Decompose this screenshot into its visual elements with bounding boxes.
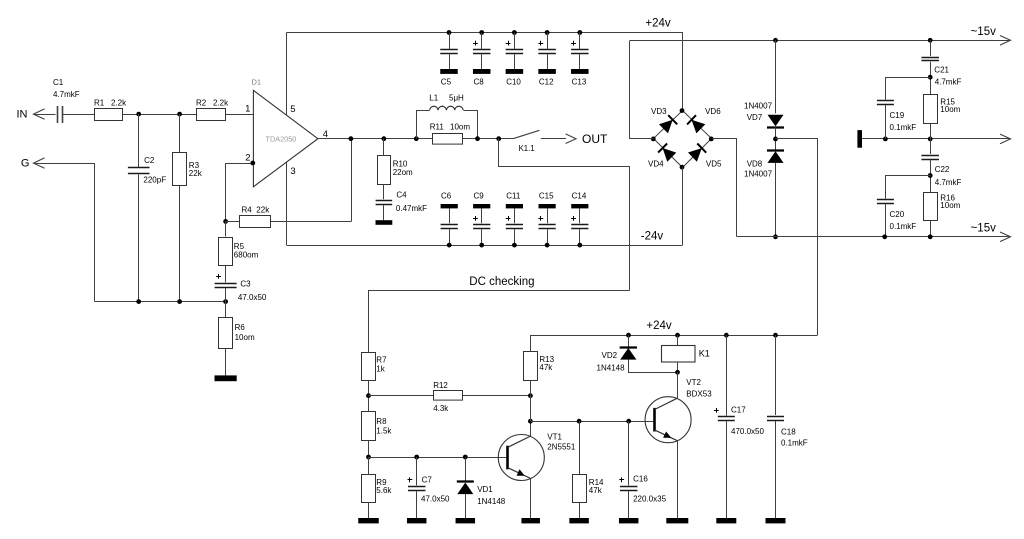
wire	[416, 457, 418, 485]
wire	[179, 186, 181, 302]
terminal IN	[17, 109, 45, 121]
svg-text:VD8: VD8	[747, 160, 763, 169]
ground	[215, 375, 237, 381]
svg-text:C14: C14	[572, 192, 587, 201]
node	[177, 299, 182, 304]
node	[928, 38, 933, 43]
node	[136, 112, 141, 117]
svg-text:5: 5	[290, 104, 295, 115]
label ~15v	[971, 222, 997, 234]
diode VD1	[457, 482, 506, 506]
svg-text:0.1mkF: 0.1mkF	[890, 222, 917, 231]
svg-text:BDX53: BDX53	[686, 390, 712, 399]
svg-text:5μH: 5μH	[449, 94, 464, 103]
capacitor C10	[506, 30, 524, 87]
node	[475, 136, 480, 141]
resistor R2	[196, 99, 229, 121]
resistor R16	[924, 193, 961, 221]
svg-text:R11: R11	[430, 122, 445, 131]
svg-text:10om: 10om	[450, 122, 470, 131]
resistor R1	[94, 99, 127, 121]
transistor VT1	[498, 421, 576, 518]
svg-text:C8: C8	[474, 78, 485, 87]
svg-text:2N5551: 2N5551	[547, 443, 576, 452]
node	[928, 173, 933, 178]
svg-text:1.5k: 1.5k	[376, 426, 392, 435]
svg-text:1N4148: 1N4148	[477, 497, 506, 506]
svg-text:5.6k: 5.6k	[376, 486, 392, 495]
node	[883, 137, 888, 142]
svg-text:4.3k: 4.3k	[433, 404, 449, 413]
wire	[34, 164, 95, 302]
wire +24v rail	[287, 33, 683, 111]
svg-text:C9: C9	[474, 192, 485, 201]
wire	[885, 204, 887, 236]
ground	[358, 518, 379, 523]
capacitor C20	[877, 200, 916, 231]
wire	[123, 114, 196, 116]
node	[577, 419, 582, 424]
wire	[775, 40, 777, 113]
capacitor C13	[571, 30, 589, 87]
svg-text:C17: C17	[731, 405, 746, 414]
resistor R12	[369, 381, 531, 413]
wire -24v rail	[287, 245, 683, 247]
node	[928, 137, 933, 142]
svg-text:C2: C2	[144, 156, 155, 165]
svg-text:IN: IN	[17, 109, 28, 121]
node	[414, 455, 419, 460]
resistor R13	[524, 352, 555, 381]
wire +24v bottom rail	[530, 335, 817, 337]
node	[177, 112, 182, 117]
svg-text:22k: 22k	[189, 169, 203, 178]
node	[680, 108, 685, 113]
resistor R9	[362, 475, 393, 503]
wire ~15v top	[630, 36, 1011, 46]
node	[223, 299, 228, 304]
wire	[775, 421, 777, 518]
op-amp D1 TDA2050	[252, 77, 318, 187]
svg-text:OUT: OUT	[582, 132, 608, 146]
svg-text:VD1: VD1	[477, 485, 493, 494]
node	[528, 419, 533, 424]
wire	[775, 335, 777, 415]
ground	[619, 518, 639, 523]
svg-text:C4: C4	[396, 190, 407, 199]
wire	[383, 139, 385, 155]
svg-text:C13: C13	[572, 78, 587, 87]
svg-text:0.47mkF: 0.47mkF	[396, 204, 427, 213]
svg-text:4.7mkF: 4.7mkF	[935, 78, 962, 87]
wire	[530, 335, 532, 352]
svg-text:47.0x50: 47.0x50	[421, 494, 450, 503]
ground	[716, 518, 736, 523]
wire	[726, 421, 728, 518]
wire	[579, 421, 581, 474]
ground	[376, 220, 393, 225]
capacitor C11	[506, 192, 523, 248]
wire	[465, 457, 467, 482]
wire	[886, 176, 931, 199]
wire	[530, 380, 532, 421]
diode VD5	[688, 144, 722, 169]
diode VD6	[687, 107, 721, 133]
node	[882, 234, 887, 239]
wire	[138, 114, 140, 167]
svg-text:2: 2	[245, 153, 250, 164]
svg-text:10om: 10om	[940, 105, 960, 114]
node	[928, 75, 933, 80]
wire	[886, 78, 931, 100]
wire	[628, 491, 630, 518]
wire	[63, 114, 95, 116]
wire	[465, 494, 467, 518]
svg-text:1N4148: 1N4148	[597, 363, 626, 372]
svg-text:3: 3	[290, 166, 295, 177]
wire DC checking	[369, 291, 630, 353]
wire	[225, 302, 227, 318]
svg-text:C6: C6	[441, 192, 452, 201]
resistor R15	[924, 95, 961, 124]
node	[773, 137, 778, 142]
node	[773, 234, 778, 239]
node	[528, 393, 533, 398]
wire	[775, 127, 777, 150]
wire mid out	[862, 134, 1011, 144]
svg-text:C7: C7	[422, 475, 433, 484]
svg-text:R7: R7	[376, 355, 387, 364]
node	[724, 333, 729, 338]
capacitor C18	[767, 417, 808, 448]
svg-text:2.2k: 2.2k	[213, 99, 229, 108]
svg-text:VD7: VD7	[747, 113, 763, 122]
svg-text:-24v: -24v	[641, 231, 664, 243]
svg-text:C3: C3	[240, 279, 251, 288]
wire	[383, 205, 385, 220]
capacitor C12	[538, 30, 556, 87]
svg-text:C5: C5	[441, 78, 452, 87]
wire	[94, 301, 225, 303]
svg-text:C16: C16	[633, 474, 648, 483]
resistor R10	[378, 156, 414, 185]
resistor R3	[173, 153, 203, 186]
svg-text:K1: K1	[699, 348, 710, 358]
node	[496, 136, 501, 141]
svg-text:680om: 680om	[234, 250, 259, 259]
svg-text:TDA2050: TDA2050	[266, 134, 297, 143]
svg-text:C12: C12	[539, 78, 554, 87]
node	[651, 137, 656, 142]
svg-text:1N4007: 1N4007	[744, 170, 773, 179]
svg-text:C21: C21	[934, 65, 949, 74]
node	[366, 455, 371, 460]
wire feedback	[225, 163, 227, 221]
wire pin1	[225, 104, 253, 115]
svg-text:47k: 47k	[589, 486, 603, 495]
relay K1	[662, 335, 710, 372]
svg-text:4.7mkF: 4.7mkF	[935, 178, 962, 187]
svg-text:1k: 1k	[376, 365, 385, 374]
node	[463, 455, 468, 460]
wire	[930, 160, 932, 192]
node pin2	[250, 161, 255, 166]
svg-text:~15v: ~15v	[971, 26, 997, 38]
capacitor C3	[215, 274, 267, 302]
wire	[930, 221, 932, 237]
diode VD2	[597, 348, 637, 373]
wire	[628, 335, 630, 347]
resistor R4	[226, 206, 352, 228]
label DC checking	[469, 276, 534, 288]
wire ~15v bottom	[737, 232, 1011, 242]
label -24v	[641, 231, 664, 243]
svg-text:4: 4	[323, 129, 328, 140]
resistor R11	[430, 122, 471, 144]
svg-text:C1: C1	[53, 78, 64, 87]
resistor R6	[219, 318, 255, 349]
wire	[416, 491, 418, 518]
capacitor C7	[408, 475, 451, 503]
diode VD7	[744, 101, 784, 127]
capacitor C1	[53, 78, 80, 123]
svg-text:R8: R8	[376, 417, 387, 426]
svg-text:D1: D1	[252, 77, 262, 86]
diode VD4	[648, 144, 676, 169]
wire	[225, 221, 227, 236]
svg-text:VD3: VD3	[651, 107, 667, 116]
svg-text:R6: R6	[235, 323, 246, 332]
wire	[34, 114, 56, 116]
svg-text:10om: 10om	[235, 333, 255, 342]
terminal bar	[857, 130, 862, 148]
wire	[225, 265, 227, 282]
svg-text:+24v: +24v	[646, 320, 672, 332]
label ~15v	[971, 26, 997, 38]
label +24v	[645, 17, 671, 29]
resistor R8	[362, 412, 393, 441]
svg-text:~15v: ~15v	[971, 222, 997, 234]
wire	[368, 457, 370, 474]
svg-text:G: G	[21, 157, 30, 169]
wire	[775, 163, 777, 237]
ground	[456, 518, 476, 523]
svg-text:1: 1	[245, 104, 250, 115]
terminal G	[21, 157, 45, 169]
svg-text:2.2k: 2.2k	[111, 99, 127, 108]
capacitor C22	[921, 156, 961, 188]
svg-text:K1.1: K1.1	[519, 144, 535, 153]
svg-text:470.0x50: 470.0x50	[731, 427, 764, 436]
wire	[930, 123, 932, 154]
node	[675, 370, 680, 375]
wire	[930, 62, 932, 94]
node	[709, 137, 714, 142]
capacitor C9	[473, 192, 490, 248]
node	[626, 333, 631, 338]
pin 2 wire	[226, 153, 254, 164]
svg-text:4.7mkF: 4.7mkF	[53, 90, 80, 99]
node	[223, 219, 228, 224]
wire	[712, 139, 737, 237]
capacitor C17	[714, 405, 765, 436]
node	[928, 234, 933, 239]
svg-text:220.0x35: 220.0x35	[633, 494, 666, 503]
svg-text:0.1mkF: 0.1mkF	[890, 123, 917, 132]
wire	[462, 138, 513, 140]
svg-text:R1: R1	[94, 99, 105, 108]
node	[773, 38, 778, 43]
svg-text:VD2: VD2	[602, 351, 618, 360]
svg-text:C19: C19	[890, 111, 905, 120]
svg-text:+24v: +24v	[645, 17, 671, 29]
arrow OUT	[541, 132, 608, 146]
wire	[383, 184, 385, 199]
pin 5 wire	[287, 33, 296, 116]
capacitor C5	[440, 30, 458, 87]
wire	[629, 360, 678, 373]
capacitor C4	[376, 190, 428, 213]
pin 3 wire	[287, 162, 296, 245]
resistor R7	[362, 353, 388, 381]
svg-text:10om: 10om	[940, 201, 960, 210]
svg-text:C10: C10	[506, 78, 521, 87]
capacitor C19	[877, 101, 916, 132]
svg-text:C20: C20	[890, 210, 905, 219]
wire	[726, 335, 728, 416]
wire	[682, 167, 684, 245]
ground	[666, 518, 688, 523]
resistor R14	[573, 475, 605, 503]
svg-text:VD5: VD5	[706, 160, 722, 169]
wire	[930, 40, 932, 56]
wire	[630, 41, 654, 139]
svg-text:R4: R4	[242, 206, 253, 215]
wire	[368, 502, 370, 518]
ground	[766, 518, 786, 523]
inductor L1	[417, 94, 478, 139]
svg-text:22om: 22om	[393, 168, 413, 177]
svg-text:VT2: VT2	[686, 378, 701, 387]
diode VD3	[651, 107, 677, 133]
svg-text:47k: 47k	[539, 363, 553, 372]
capacitor C6	[441, 192, 458, 248]
node	[349, 136, 354, 141]
ground	[407, 518, 427, 523]
wire VT1 base	[369, 457, 507, 459]
resistor R5	[219, 238, 259, 266]
wire	[776, 139, 818, 336]
wire	[368, 440, 370, 457]
diode VD8	[744, 151, 784, 179]
wire	[179, 114, 181, 152]
pin 4 output wire	[318, 129, 432, 140]
node	[382, 136, 387, 141]
node	[675, 333, 680, 338]
svg-text:1N4007: 1N4007	[744, 101, 773, 110]
svg-text:C18: C18	[781, 428, 796, 437]
svg-text:C22: C22	[935, 165, 950, 174]
wire	[368, 380, 370, 412]
capacitor C16	[619, 474, 666, 503]
svg-text:R2: R2	[196, 99, 207, 108]
label +24v	[646, 320, 672, 332]
wire	[579, 502, 581, 518]
svg-text:C15: C15	[539, 192, 554, 201]
node	[414, 136, 419, 141]
svg-text:VT1: VT1	[547, 433, 562, 442]
wire	[138, 175, 140, 302]
wire	[885, 105, 887, 139]
svg-text:R10: R10	[393, 159, 408, 168]
capacitor C15	[538, 192, 555, 248]
ground	[521, 518, 540, 523]
svg-text:C11: C11	[506, 192, 521, 201]
svg-text:VD6: VD6	[705, 107, 721, 116]
svg-text:VD4: VD4	[648, 160, 664, 169]
node	[366, 393, 371, 398]
wire collector line	[530, 421, 654, 423]
svg-text:47.0x50: 47.0x50	[238, 293, 267, 302]
svg-text:220pF: 220pF	[143, 176, 166, 185]
node	[680, 165, 685, 170]
transistor VT2	[645, 372, 712, 518]
capacitor C14	[571, 192, 588, 248]
wire	[225, 288, 227, 302]
svg-text:22k: 22k	[256, 206, 270, 215]
wire bridge frame	[654, 111, 712, 168]
capacitor C2	[128, 156, 166, 184]
wire	[225, 348, 227, 375]
svg-text:R12: R12	[433, 381, 448, 390]
svg-text:DC checking: DC checking	[469, 276, 534, 288]
capacitor C8	[473, 30, 491, 87]
ground	[569, 518, 589, 523]
svg-text:0.1mkF: 0.1mkF	[781, 439, 808, 448]
node	[773, 333, 778, 338]
svg-text:L1: L1	[429, 94, 438, 103]
switch K1.1	[513, 130, 540, 153]
node	[626, 419, 631, 424]
wire	[628, 421, 630, 485]
node	[136, 299, 141, 304]
capacitor C21	[921, 58, 961, 87]
wire	[351, 139, 353, 222]
wire DC sense	[499, 139, 630, 291]
